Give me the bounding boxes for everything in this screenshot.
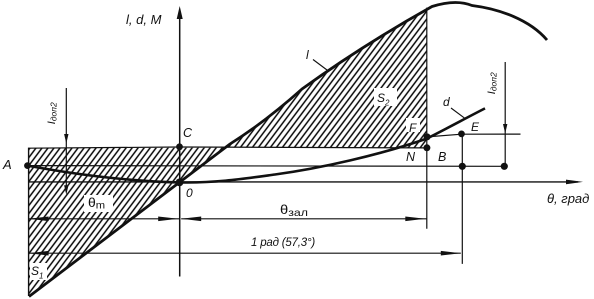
I_dop2 right arrow line	[504, 62, 506, 166]
white box behind F label	[406, 118, 420, 132]
point E	[458, 131, 465, 138]
white box behind S1 label	[30, 263, 47, 280]
white box behind S2 label	[374, 88, 397, 106]
text labels	[126, 12, 161, 27]
axis arrow right	[566, 180, 583, 185]
dimension line 1 rad	[29, 252, 461, 254]
vertical line through E,B	[461, 134, 463, 264]
point F	[424, 133, 431, 140]
hatched region S2 (under curve l)	[225, 9, 427, 148]
axis arrow top	[177, 6, 183, 19]
point O	[176, 179, 184, 187]
horizontal axis theta	[28, 181, 578, 183]
point N	[423, 144, 430, 151]
line through F and E	[427, 134, 521, 137]
vertical line through F,N	[426, 8, 428, 229]
I_dop2 right label (rotated)	[486, 60, 499, 106]
line through A to B	[28, 165, 505, 168]
line through C to N	[29, 147, 427, 148]
leader line for l	[313, 60, 329, 72]
dimension line theta_zal	[181, 218, 427, 220]
I_dop2 left label (rotated)	[46, 90, 59, 136]
I_dop2 left arrow line	[65, 88, 67, 192]
left boundary edge x=28.6	[28, 148, 30, 296]
point B dot	[459, 163, 466, 170]
hatched region S1 (left triangle + band)	[29, 148, 225, 297]
vertical axis	[179, 14, 181, 277]
dot on I_dop2 right	[501, 163, 508, 170]
curve d (thick)	[28, 108, 486, 182]
point A	[24, 162, 31, 169]
dimension line theta_m	[29, 218, 180, 220]
leader line for d	[451, 108, 465, 118]
point C	[176, 143, 183, 150]
white box behind theta_m label	[84, 195, 113, 212]
